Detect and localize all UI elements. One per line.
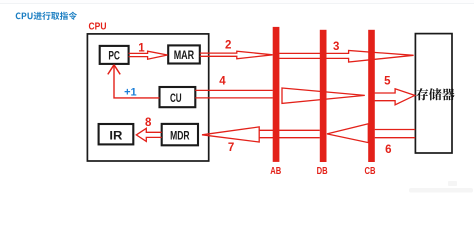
svg-text:2: 2 (225, 40, 231, 52)
svg-text:6: 6 (385, 144, 391, 156)
svg-text:DB: DB (317, 165, 328, 177)
svg-text:+1: +1 (124, 87, 137, 99)
svg-text:MDR: MDR (170, 128, 190, 142)
svg-text:1: 1 (138, 43, 145, 55)
svg-text:7: 7 (228, 142, 234, 154)
svg-text:3: 3 (333, 41, 339, 53)
svg-text:5: 5 (384, 76, 391, 88)
svg-text:MAR: MAR (174, 48, 195, 62)
svg-text:PC: PC (108, 49, 120, 63)
svg-text:8: 8 (145, 117, 152, 129)
svg-text:4: 4 (219, 75, 226, 87)
svg-text:CPU: CPU (89, 22, 107, 33)
svg-text:CB: CB (365, 165, 376, 177)
svg-text:AB: AB (270, 165, 281, 177)
svg-text:IR: IR (109, 128, 122, 142)
svg-text:CU: CU (170, 91, 182, 105)
